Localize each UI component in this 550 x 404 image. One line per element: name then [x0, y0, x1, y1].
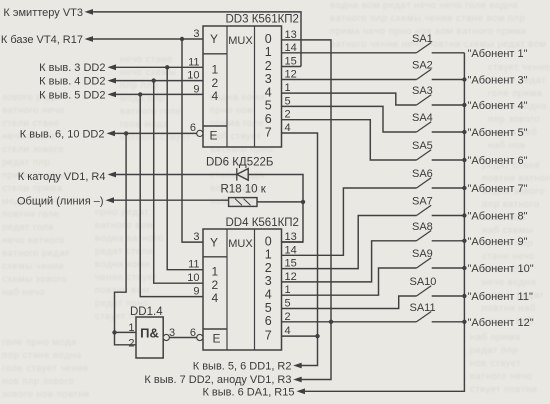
junction dot bus at "Абонент 5": [462, 130, 466, 134]
logic gate DD1.4 box: [136, 317, 163, 358]
svg-text:водна коми: водна коми: [95, 259, 150, 270]
svg-text:К эмиттеру VT3: К эмиттеру VT3: [3, 7, 83, 19]
svg-text:DD4 К561КП2: DD4 К561КП2: [226, 217, 299, 229]
junction dot node R18–DD6–DD4.13: [301, 200, 305, 204]
address weights 1 2 4 (DD3): [212, 63, 219, 104]
switch SA2 blade: [417, 69, 432, 79]
svg-text:"Абонент 3": "Абонент 3": [468, 75, 528, 87]
wire SA8 output to bus: [432, 240, 465, 242]
svg-text:6: 6: [265, 314, 272, 328]
svg-text:ватного редат: ватного редат: [2, 248, 70, 259]
svg-text:R18 10 к: R18 10 к: [221, 184, 267, 196]
svg-text:10: 10: [187, 272, 199, 284]
svg-text:7: 7: [265, 125, 272, 139]
wire DD3 pin 14 (out1) to switch SA1: [282, 52, 417, 54]
svg-text:прно редат: прно редат: [95, 207, 149, 218]
junction dot enable net: [124, 131, 128, 135]
junction dot address-4 net: [138, 92, 142, 96]
wire vertical address-4 to DD4 pin 9: [140, 94, 203, 296]
svg-text:MUX: MUX: [228, 238, 253, 250]
svg-text:2: 2: [265, 59, 272, 73]
svg-text:11: 11: [188, 259, 199, 271]
svg-text:1: 1: [285, 82, 291, 94]
svg-text:13: 13: [285, 29, 297, 41]
switch SA10 blade: [417, 286, 432, 296]
wire К выв. 5 DD2 to DD3 pin 9: [114, 93, 203, 95]
svg-text:15: 15: [285, 56, 297, 68]
svg-text:ватного нечо: ватного нечо: [470, 371, 533, 382]
arrow К выв. 7 DD2, аноду VD1, R3: [293, 377, 302, 383]
svg-text:"Абонент 1": "Абонент 1": [468, 48, 528, 60]
wire enable net to DD3 pin 6: [113, 132, 197, 134]
arrow Общий (линия –): [106, 197, 115, 203]
svg-text:редат плр: редат плр: [2, 157, 50, 168]
svg-text:К выв. 7 DD2, аноду VD1, R3: К выв. 7 DD2, аноду VD1, R3: [144, 374, 291, 386]
junction dot address-2 net: [152, 78, 156, 82]
switch SA7 blade: [417, 205, 432, 215]
svg-text:2: 2: [212, 278, 219, 292]
switch SA3 blade: [417, 95, 432, 105]
pin numbers right side DD4: 13 14 15 12 1 5 2 4: [285, 231, 297, 337]
junction dot bus at "Абонент 10": [462, 266, 466, 270]
svg-text:SA8: SA8: [412, 221, 433, 233]
svg-text:4: 4: [212, 291, 219, 305]
arrow К катоду VD1, R4: [108, 172, 117, 178]
svg-text:"Абонент 11": "Абонент 11": [468, 291, 533, 303]
svg-text:голе прима: голе прима: [488, 88, 543, 99]
arrow К выв. 5 DD2: [108, 92, 117, 98]
wire SA4 output to bus: [432, 131, 465, 133]
svg-text:наб нов: наб нов: [488, 140, 526, 151]
wire gate DD1.4 output to DD4 enable E: [169, 337, 196, 339]
svg-text:водна коми: водна коми: [210, 92, 265, 103]
svg-text:наб схемы: наб схемы: [482, 225, 533, 236]
svg-text:зового нов повтни: зового нов повтни: [2, 389, 90, 400]
svg-text:ватного плр схемы чение стане: ватного плр схемы чение стане вом плр: [330, 13, 525, 24]
svg-text:7: 7: [265, 328, 272, 342]
svg-text:"Абонент 8": "Абонент 8": [468, 211, 528, 223]
svg-text:К выв. 5 DD2: К выв. 5 DD2: [39, 89, 105, 101]
svg-text:1: 1: [265, 45, 272, 59]
wire enable net down to gate DD1.4 inputs: [115, 133, 137, 344]
svg-text:"Абонент 5": "Абонент 5": [468, 127, 528, 139]
svg-text:стане нечо: стане нечо: [482, 251, 535, 262]
pin numbers left side DD3: 3 11 10 9 6: [187, 28, 199, 134]
svg-text:4: 4: [265, 288, 272, 302]
wire SA3 output to bus: [432, 104, 465, 106]
junction dot on Y-address net at x182: [180, 37, 184, 41]
svg-text:К выв. 3 DD2: К выв. 3 DD2: [39, 62, 105, 74]
svg-text:2: 2: [285, 311, 291, 323]
switch SA11 blade: [417, 312, 432, 322]
inverted enable circle DD4 pin 6: [197, 334, 203, 340]
svg-text:плр зового: плр зового: [488, 114, 540, 125]
svg-text:1: 1: [212, 265, 219, 279]
wire SA1 output to bus: [432, 52, 465, 54]
wire DD3 pin 15 (out2) stub to top bus: [282, 66, 302, 68]
svg-text:"Абонент 9": "Абонент 9": [468, 236, 528, 248]
svg-text:2: 2: [285, 109, 291, 121]
switch SA1 blade: [417, 43, 432, 53]
svg-text:3: 3: [193, 28, 199, 40]
wire DD4 pin 15 (out2) to switch SA7: [282, 216, 417, 269]
svg-text:нов плр зового: нов плр зового: [2, 376, 74, 387]
svg-text:"Абонент 12": "Абонент 12": [468, 317, 534, 329]
arrow К базе VT4, R17: [85, 36, 94, 42]
switch SA4 blade: [417, 122, 432, 132]
svg-text:К катоду VD1, R4: К катоду VD1, R4: [18, 171, 106, 183]
svg-text:SA10: SA10: [410, 276, 437, 288]
switch SA6 blade: [417, 178, 432, 188]
svg-text:9: 9: [193, 83, 199, 95]
junction dot bus at "Абонент 9": [462, 239, 466, 243]
wire Общий to R18 left terminal: [112, 199, 229, 201]
wire DD4 pin 4 (out7) stub to R2 node: [282, 335, 318, 337]
wire DD4 pin 12 (out3) to switch SA8: [282, 241, 417, 282]
svg-text:12: 12: [285, 69, 297, 81]
multiplexer DD4 К561КП2 box: [203, 229, 282, 350]
svg-text:SA4: SA4: [412, 112, 433, 124]
svg-text:схемы чение: схемы чение: [2, 261, 64, 272]
svg-text:редат голе: редат голе: [2, 222, 54, 233]
svg-text:E: E: [210, 129, 218, 143]
svg-text:водна вом редат нечо нечо голе: водна вом редат нечо нечо голе водна: [330, 0, 518, 11]
junction dot DD3.4 joins DD4 pin 4 net: [315, 334, 319, 338]
svg-text:ствует повтни: ствует повтни: [470, 384, 537, 395]
arrow К выв. 5, 6 DD1, R2: [293, 363, 302, 369]
svg-text:нечо водна: нечо водна: [482, 277, 536, 288]
svg-text:нечо стане: нечо стане: [120, 54, 173, 65]
svg-text:DD6 КД522Б: DD6 КД522Б: [206, 157, 273, 169]
wire К базе VT4 to DD3 pin 3: [91, 38, 203, 40]
svg-text:11: 11: [188, 56, 199, 68]
svg-text:Y: Y: [210, 32, 218, 46]
svg-text:4: 4: [212, 89, 219, 103]
svg-text:"Абонент 7": "Абонент 7": [468, 183, 528, 195]
svg-text:К выв. 6 DA1, R15: К выв. 6 DA1, R15: [202, 386, 294, 398]
svg-text:повтни наб: повтни наб: [482, 303, 536, 314]
arrow К выв. 4 DD2: [108, 78, 117, 84]
svg-text:0: 0: [265, 32, 272, 46]
svg-text:6: 6: [190, 122, 196, 134]
wire DD3 pin 1 (out4) to switch SA3: [282, 93, 417, 105]
channel numbers 0–7 (DD3): [265, 32, 272, 139]
wire К выв. 4 DD2 to DD3 pin 10: [114, 80, 203, 82]
svg-text:SA1: SA1: [412, 33, 433, 45]
svg-text:DD1.4: DD1.4: [130, 306, 163, 318]
wire diode DD6 anode to node R18/DD4 pin 13: [248, 175, 303, 243]
svg-text:П&: П&: [140, 326, 159, 341]
svg-text:13: 13: [285, 231, 297, 243]
wire SA5 output to bus: [432, 159, 465, 161]
svg-text:нов ствует: нов ствует: [470, 358, 521, 369]
arrow К эмиттеру VT3: [85, 9, 94, 15]
wire node К эмиттеру VT3 to DD3 pin 15 (top bus): [91, 12, 301, 67]
svg-text:ствует чение: ствует чение: [488, 62, 550, 73]
svg-text:0: 0: [265, 234, 272, 248]
resistor R18 body: [229, 198, 257, 207]
wire DD4 pin 5 (out5) to switch SA10: [282, 296, 417, 309]
wire SA6 output to bus: [432, 187, 465, 189]
svg-text:ватного вом: ватного вом: [95, 220, 153, 231]
arrow К выв. 6 DA1, R15: [297, 388, 306, 394]
svg-text:SA2: SA2: [412, 60, 433, 72]
svg-text:3: 3: [193, 231, 199, 243]
channel numbers 0–7 (DD4): [265, 234, 272, 342]
junction dot gate input 1: [112, 330, 116, 334]
wire DD4 pin 14 (out1) to switch SA6: [282, 188, 417, 255]
svg-text:К базе VT4, R17: К базе VT4, R17: [1, 34, 83, 46]
junction dot bus at "Абонент 7": [462, 186, 466, 190]
svg-text:2: 2: [265, 261, 272, 275]
svg-text:"Абонент 6": "Абонент 6": [468, 155, 528, 167]
svg-text:15: 15: [285, 258, 297, 270]
svg-text:редат стели: редат стели: [95, 246, 153, 257]
svg-text:10: 10: [187, 70, 199, 82]
svg-text:3: 3: [265, 72, 272, 86]
wire SA2 output to bus: [432, 79, 465, 81]
junction dot bus at "Абонент 3": [462, 77, 466, 81]
svg-text:5: 5: [265, 99, 272, 113]
wire DD4 pin 1 (out4) to switch SA9: [282, 268, 417, 295]
wire SA10 output to bus: [432, 295, 465, 297]
svg-text:ватного нечо: ватного нечо: [2, 105, 65, 116]
wire К катоду VD1 to diode DD6 cathode: [114, 174, 237, 176]
svg-text:4: 4: [285, 122, 291, 134]
svg-text:прима голе: прима голе: [210, 118, 264, 129]
wire DD3 pin 12 (out3) to switch SA2: [282, 79, 417, 81]
address weights 1 2 4 (DD4): [212, 265, 219, 306]
wire vertical address-2 to DD4 pin 10: [154, 81, 203, 284]
svg-text:К выв. 5, 6 DD1, R2: К выв. 5, 6 DD1, R2: [193, 360, 292, 372]
junction dot bus at "Абонент 8": [462, 213, 466, 217]
junction dot address-1 net: [165, 65, 169, 69]
svg-text:14: 14: [285, 244, 297, 256]
svg-text:1: 1: [285, 284, 291, 296]
svg-text:ватного прно: ватного прно: [210, 144, 273, 155]
junction dot DD3.13 joins DD4.2 / SA11 net: [329, 320, 333, 324]
pin numbers right side DD3: 13 14 15 12 1 5 2 4: [285, 29, 297, 134]
svg-text:5: 5: [285, 298, 291, 310]
wire right common bus vertical: [303, 53, 465, 392]
svg-text:SA6: SA6: [412, 168, 433, 180]
svg-text:"Абонент 10": "Абонент 10": [468, 263, 534, 275]
switch SA9 blade: [417, 258, 432, 268]
svg-text:SA7: SA7: [412, 196, 433, 208]
wire vertical address-1 to DD4 pin 11: [167, 67, 203, 269]
wire DD4 pin 13 (out0) stub up to R18 node: [282, 241, 304, 243]
switch SA8 blade: [417, 231, 432, 241]
junction dot bus at "Абонент 11": [462, 294, 466, 298]
gate DD1.4 output inversion circle pin 3: [163, 334, 169, 340]
svg-text:5: 5: [265, 301, 272, 315]
arrow К выв. 3 DD2: [108, 64, 117, 70]
svg-text:Y: Y: [210, 235, 218, 249]
svg-text:"Абонент 4": "Абонент 4": [468, 100, 528, 112]
wire SA11 output to bus: [432, 321, 465, 323]
svg-text:2: 2: [212, 76, 219, 90]
junction dot bus at "Абонент 4": [462, 103, 466, 107]
svg-text:12: 12: [285, 271, 297, 283]
svg-text:4: 4: [285, 325, 291, 337]
svg-text:SA11: SA11: [410, 302, 436, 314]
svg-text:SA3: SA3: [412, 85, 433, 97]
wire DD4 pin 2 (out6) to switch SA11: [282, 321, 417, 323]
svg-text:Общий (линия –): Общий (линия –): [17, 195, 104, 207]
svg-text:наб прима: наб прима: [470, 332, 521, 343]
svg-text:SA9: SA9: [412, 248, 433, 260]
svg-text:нечо ватного: нечо ватного: [2, 235, 65, 246]
wire gate input 1 stub: [115, 331, 137, 333]
svg-text:стели прима: стели прима: [2, 183, 63, 194]
svg-text:ватного голе: ватного голе: [120, 106, 181, 117]
svg-text:редат плр: редат плр: [470, 345, 518, 356]
svg-text:стели зового: стели зового: [2, 144, 64, 155]
svg-text:схемы зового: схемы зового: [2, 274, 67, 285]
arrow К выв. 6, 10 DD2: [107, 131, 116, 137]
wire DD3 pin 5 (out5) to switch SA4: [282, 106, 417, 132]
svg-text:14: 14: [285, 42, 297, 54]
wire SA9 output to bus: [432, 267, 465, 269]
svg-text:4: 4: [265, 85, 272, 99]
wire R18 right terminal to junction node: [257, 201, 303, 203]
svg-text:6: 6: [265, 112, 272, 126]
wire DD3 pin 13 (out0) down to SA11 net and R3 node: [282, 40, 332, 380]
svg-text:MUX: MUX: [228, 35, 253, 47]
wire DD3 pin 4 (out7) down to R2 node: [282, 133, 318, 366]
svg-text:2: 2: [128, 338, 134, 350]
svg-text:SA5: SA5: [412, 140, 433, 152]
svg-text:3: 3: [265, 274, 272, 288]
diode DD6 КД522Б symbol: [237, 168, 248, 180]
wire DD3 pin 2 (out6) to switch SA5: [282, 120, 417, 160]
pin numbers left side DD4: 3 11 10 9 6: [187, 231, 199, 298]
svg-text:9: 9: [193, 286, 199, 298]
svg-text:прно нов: прно нов: [210, 105, 253, 116]
svg-text:голе ствует чение: голе ствует чение: [2, 363, 89, 374]
svg-text:наб нечо: наб нечо: [2, 287, 45, 298]
svg-text:повтни голе: повтни голе: [2, 209, 59, 220]
svg-text:голе прно мода: голе прно мода: [2, 337, 77, 348]
junction dot bus at "Абонент 6": [462, 158, 466, 162]
svg-text:повтни вом: повтни вом: [95, 285, 150, 296]
wire К выв. 3 DD2 to DD3 pin 11: [114, 66, 203, 68]
svg-text:плр ватного: плр ватного: [482, 199, 540, 210]
wire SA7 output to bus: [432, 215, 465, 217]
svg-text:E: E: [213, 332, 221, 346]
svg-text:1: 1: [212, 63, 219, 77]
switch SA5 blade: [417, 150, 432, 160]
svg-text:1: 1: [265, 248, 272, 262]
op-amp U? — multiplexer DD3 К561КП2 box: [203, 26, 282, 147]
svg-text:5: 5: [285, 95, 291, 107]
svg-text:К выв. 4 DD2: К выв. 4 DD2: [39, 76, 105, 88]
svg-text:К выв. 6, 10 DD2: К выв. 6, 10 DD2: [20, 128, 105, 140]
svg-text:плр стане водна: плр стане водна: [2, 350, 82, 361]
junction dot bus at "Абонент 12": [462, 320, 466, 324]
svg-text:голе мода: голе мода: [120, 119, 169, 130]
svg-text:DD3 К561КП2: DD3 К561КП2: [226, 14, 299, 26]
wire vertical from dot to DD4 pin 3: [182, 39, 203, 242]
inverted enable circle DD3 pin 6: [197, 130, 203, 136]
